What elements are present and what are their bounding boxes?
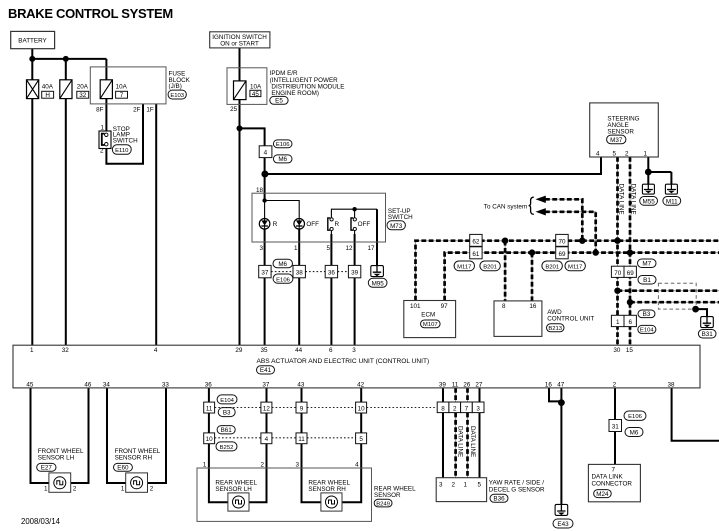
svg-text:36: 36: [205, 382, 213, 389]
svg-text:3: 3: [259, 245, 263, 252]
svg-text:36: 36: [328, 270, 336, 277]
svg-text:OFF: OFF: [306, 221, 319, 228]
svg-text:(J/B): (J/B): [169, 83, 182, 90]
svg-text:4: 4: [355, 462, 359, 469]
svg-text:38: 38: [296, 270, 304, 277]
svg-text:3: 3: [476, 405, 480, 412]
svg-text:2F: 2F: [133, 107, 141, 114]
svg-text:B31: B31: [702, 331, 714, 338]
svg-text:32: 32: [79, 92, 87, 99]
svg-text:1: 1: [203, 462, 207, 469]
svg-text:YAW RATE / SIDE /: YAW RATE / SIDE /: [489, 480, 544, 487]
svg-text:2008/03/14: 2008/03/14: [21, 517, 61, 526]
svg-text:2: 2: [73, 486, 77, 493]
svg-text:17: 17: [367, 245, 375, 252]
svg-text:M24: M24: [596, 491, 609, 498]
svg-text:DATA LINE: DATA LINE: [629, 184, 636, 215]
svg-text:10A: 10A: [116, 84, 128, 91]
svg-text:10: 10: [358, 405, 366, 412]
svg-text:15: 15: [626, 347, 634, 354]
svg-text:62: 62: [472, 238, 480, 245]
svg-text:40A: 40A: [42, 84, 54, 91]
svg-text:CONNECTOR: CONNECTOR: [592, 480, 633, 487]
svg-text:7: 7: [120, 92, 124, 99]
svg-text:2: 2: [150, 486, 154, 493]
svg-text:5: 5: [326, 245, 330, 252]
svg-text:SENSOR: SENSOR: [374, 492, 401, 499]
svg-text:3: 3: [295, 462, 299, 469]
svg-text:5: 5: [612, 150, 616, 157]
svg-text:BATTERY: BATTERY: [18, 37, 47, 44]
svg-text:B201: B201: [483, 264, 497, 270]
svg-text:8: 8: [441, 405, 445, 412]
svg-text:E103: E103: [170, 93, 184, 99]
svg-text:M107: M107: [423, 322, 438, 328]
svg-text:35: 35: [260, 347, 268, 354]
svg-text:4: 4: [264, 150, 268, 157]
svg-text:E106: E106: [276, 142, 290, 148]
svg-text:16: 16: [545, 382, 553, 389]
svg-text:16: 16: [529, 303, 537, 310]
svg-text:11: 11: [452, 382, 459, 389]
svg-text:1: 1: [643, 150, 647, 157]
svg-text:B201: B201: [545, 264, 559, 270]
svg-text:M6: M6: [278, 156, 287, 163]
svg-text:61: 61: [472, 251, 480, 258]
svg-text:1: 1: [121, 486, 125, 493]
svg-text:SENSOR LH: SENSOR LH: [38, 455, 75, 462]
svg-text:25: 25: [230, 106, 238, 113]
svg-text:To CAN system: To CAN system: [484, 203, 527, 210]
svg-text:DECEL G SENSOR: DECEL G SENSOR: [489, 487, 545, 494]
svg-text:B1: B1: [643, 277, 651, 284]
svg-text:OFF: OFF: [358, 221, 371, 228]
svg-text:33: 33: [162, 382, 170, 389]
svg-text:32: 32: [62, 347, 70, 354]
svg-text:ABS ACTUATOR AND ELECTRIC UNIT: ABS ACTUATOR AND ELECTRIC UNIT (CONTROL …: [257, 358, 430, 365]
svg-text:1: 1: [100, 124, 104, 131]
svg-text:B249: B249: [376, 501, 390, 507]
svg-text:30: 30: [613, 347, 621, 354]
svg-text:B213: B213: [548, 326, 562, 332]
svg-text:DATA LINE: DATA LINE: [617, 184, 624, 215]
svg-text:R: R: [273, 221, 278, 228]
svg-text:E104: E104: [220, 398, 234, 404]
svg-text:69: 69: [627, 270, 635, 277]
svg-text:70: 70: [614, 270, 622, 277]
svg-text:M55: M55: [642, 198, 655, 205]
svg-text:ENGINE ROOM): ENGINE ROOM): [271, 90, 319, 97]
svg-text:11: 11: [206, 405, 213, 412]
svg-text:43: 43: [297, 382, 305, 389]
svg-text:E43: E43: [557, 521, 569, 528]
svg-text:3: 3: [439, 482, 443, 489]
svg-text:BRAKE CONTROL SYSTEM: BRAKE CONTROL SYSTEM: [8, 6, 173, 21]
svg-text:ON or START: ON or START: [220, 40, 259, 47]
svg-text:18: 18: [256, 187, 264, 194]
svg-text:B36: B36: [493, 496, 505, 503]
svg-text:CONTROL UNIT: CONTROL UNIT: [547, 316, 594, 323]
svg-text:1: 1: [44, 486, 48, 493]
svg-text:B61: B61: [221, 427, 233, 434]
svg-text:SENSOR LH: SENSOR LH: [215, 486, 252, 493]
svg-text:E60: E60: [117, 465, 129, 472]
svg-text:1: 1: [294, 245, 298, 252]
svg-text:M6: M6: [630, 430, 639, 437]
svg-text:46: 46: [84, 382, 92, 389]
svg-text:38: 38: [667, 382, 675, 389]
svg-text:SENSOR RH: SENSOR RH: [115, 455, 153, 462]
svg-text:2: 2: [625, 150, 629, 157]
svg-text:4: 4: [154, 347, 158, 354]
svg-text:70: 70: [558, 238, 566, 245]
svg-text:M11: M11: [666, 198, 678, 205]
svg-text:12: 12: [345, 245, 353, 252]
svg-text:2: 2: [100, 148, 104, 155]
svg-text:11: 11: [298, 436, 305, 443]
svg-text:44: 44: [295, 347, 303, 354]
svg-text:M117: M117: [568, 264, 582, 270]
svg-text:H: H: [45, 92, 50, 99]
svg-text:M73: M73: [390, 223, 403, 230]
svg-text:2: 2: [451, 482, 455, 489]
svg-text:39: 39: [439, 382, 447, 389]
svg-text:E5: E5: [275, 98, 283, 105]
svg-text:39: 39: [351, 270, 359, 277]
svg-text:31: 31: [612, 424, 620, 431]
svg-text:5: 5: [477, 482, 481, 489]
svg-text:B252: B252: [220, 445, 234, 451]
svg-text:E104: E104: [640, 328, 654, 334]
svg-text:SENSOR: SENSOR: [607, 128, 634, 135]
svg-text:20A: 20A: [77, 84, 89, 91]
svg-text:45: 45: [26, 382, 34, 389]
svg-text:1F: 1F: [146, 107, 154, 114]
svg-text:DATA LINE: DATA LINE: [456, 426, 463, 457]
svg-text:5: 5: [359, 436, 363, 443]
svg-text:M6: M6: [278, 261, 287, 268]
svg-text:69: 69: [558, 251, 566, 258]
svg-text:M7: M7: [642, 261, 651, 268]
svg-text:42: 42: [357, 382, 365, 389]
svg-text:ECM: ECM: [421, 312, 435, 319]
svg-text:29: 29: [235, 347, 243, 354]
svg-text:E27: E27: [41, 465, 53, 472]
svg-text:2: 2: [613, 382, 617, 389]
svg-text:E41: E41: [260, 367, 272, 374]
svg-text:97: 97: [441, 303, 449, 310]
svg-text:6: 6: [329, 347, 333, 354]
svg-text:45: 45: [252, 91, 260, 98]
svg-text:2: 2: [260, 462, 264, 469]
svg-text:4: 4: [596, 150, 600, 157]
svg-text:B3: B3: [223, 410, 231, 417]
svg-text:SENSOR RH: SENSOR RH: [308, 486, 346, 493]
svg-text:1: 1: [463, 482, 467, 489]
svg-text:7: 7: [465, 405, 469, 412]
svg-text:E106: E106: [628, 414, 642, 420]
svg-text:3: 3: [352, 347, 356, 354]
svg-text:9: 9: [300, 405, 304, 412]
svg-text:E106: E106: [276, 277, 290, 283]
svg-text:DATA LINE: DATA LINE: [469, 426, 476, 457]
svg-text:7: 7: [611, 467, 615, 474]
svg-text:10A: 10A: [250, 84, 262, 91]
svg-text:R: R: [335, 221, 340, 228]
svg-text:101: 101: [410, 303, 421, 310]
svg-text:1: 1: [30, 347, 34, 354]
svg-text:M37: M37: [610, 137, 623, 144]
svg-text:SWITCH: SWITCH: [113, 138, 138, 145]
svg-text:M95: M95: [372, 280, 385, 287]
svg-text:37: 37: [262, 382, 270, 389]
svg-text:27: 27: [475, 382, 483, 389]
svg-text:26: 26: [463, 382, 471, 389]
svg-text:1: 1: [616, 319, 620, 326]
svg-text:E110: E110: [115, 148, 129, 154]
svg-text:10: 10: [206, 436, 214, 443]
svg-text:M117: M117: [457, 264, 471, 270]
svg-text:SWITCH: SWITCH: [388, 214, 413, 221]
svg-text:8: 8: [502, 303, 506, 310]
svg-text:47: 47: [557, 382, 565, 389]
svg-text:6: 6: [628, 319, 632, 326]
svg-text:8F: 8F: [96, 107, 104, 114]
svg-text:2: 2: [453, 405, 457, 412]
svg-text:34: 34: [103, 382, 111, 389]
svg-text:12: 12: [263, 405, 271, 412]
svg-text:37: 37: [261, 270, 269, 277]
svg-text:B3: B3: [643, 311, 651, 318]
svg-text:4: 4: [265, 436, 269, 443]
